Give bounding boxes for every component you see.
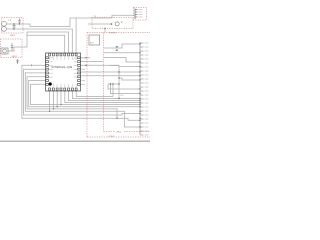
wire mic2 riser bbox=[22, 32, 27, 47]
big box left edge bbox=[86, 33, 88, 138]
wire right pin 1 stub bbox=[81, 57, 91, 59]
crystal component circle bbox=[115, 22, 119, 26]
upper right step wires bbox=[104, 44, 140, 66]
connector MIC1 circle A bbox=[2, 21, 7, 26]
top-right connector labels bbox=[139, 10, 143, 18]
wire bottom pin 4 drop bbox=[60, 91, 62, 105]
wire into crystal bbox=[88, 23, 112, 25]
red dashed box MIC2 bbox=[1, 39, 23, 58]
chip top pins bbox=[49, 53, 78, 56]
small component near left pins bbox=[16, 59, 18, 64]
wire mic2 stub bbox=[8, 47, 22, 51]
red dashed box crystal Y1 bbox=[92, 18, 133, 29]
wire left pin 8 bbox=[30, 84, 140, 104]
sub-block ANT rect bbox=[89, 35, 100, 45]
wire right pin 2 bbox=[81, 61, 104, 63]
wire left pin 5 bbox=[25, 73, 140, 127]
wire step to bus 80 bbox=[119, 78, 140, 80]
chip bottom pins bbox=[49, 88, 78, 91]
big box inner bottom edge bbox=[104, 131, 116, 133]
wire left pin 4 bbox=[24, 69, 140, 115]
junction dot crystal bbox=[111, 23, 113, 25]
wire net to bus 66 bbox=[119, 66, 140, 68]
wire step to bus 89 bbox=[108, 84, 140, 89]
wire nested to chip top pin 3 bbox=[27, 35, 65, 53]
capacitor C4 bbox=[18, 19, 21, 25]
junction dot right pin 3 bbox=[85, 65, 86, 66]
right pin outside labels bbox=[82, 58, 86, 85]
tick on chip left pin 3 wire bbox=[31, 64, 33, 67]
wire right pin 6 to bus bbox=[81, 75, 141, 77]
wires from chip bottom pins bbox=[50, 91, 140, 112]
wire bottom pin 8 bbox=[76, 91, 113, 97]
wire mic1 bottom lead to chip top pin bbox=[7, 29, 72, 53]
chip left pins bbox=[46, 57, 49, 86]
junction dots bottom pins on bus lines bbox=[60, 104, 61, 105]
capacitor C3 bbox=[13, 24, 16, 29]
wire bottom pin 1 drop bbox=[49, 91, 51, 112]
wire y65 bbox=[110, 65, 119, 67]
big box inner left edge bbox=[103, 33, 105, 132]
test point marks on y48 wire bbox=[115, 46, 118, 48]
wire nested to chip top pin 2 bbox=[27, 32, 69, 53]
wire stub below crystal box bbox=[104, 29, 106, 33]
top-right connector pins bbox=[135, 10, 138, 18]
wires from chip left pins routed down-left bbox=[22, 65, 140, 127]
big box top edge bbox=[87, 32, 150, 34]
wire bottom pin 7 bbox=[72, 91, 140, 99]
wire right pin 5 to bus bbox=[81, 71, 141, 73]
wire chip top pin 8 up to long top net bbox=[75, 18, 77, 53]
capacitor C5 bbox=[11, 43, 14, 51]
red dashed big right box bbox=[87, 33, 150, 138]
right connector bus spine bbox=[139, 42, 141, 135]
wire y57 step down bbox=[104, 58, 140, 63]
wire mic1 top lead long run to top-right connector bbox=[7, 15, 135, 26]
red dashed box top-right connector bbox=[133, 7, 146, 20]
svg-text:CON2: CON2 bbox=[108, 136, 115, 138]
wire left pin 3 bbox=[22, 65, 140, 120]
junction dots on bus spine bbox=[139, 43, 140, 127]
chip inner pin name texture bbox=[49, 57, 77, 86]
right connector pin stubs bbox=[140, 43, 144, 135]
red dashed box MIC1 bbox=[2, 18, 24, 34]
big box bottom edge bbox=[87, 136, 150, 138]
connector MIC1 circle B bbox=[2, 27, 7, 32]
wire right pin 3 long bbox=[81, 64, 120, 66]
svg-text:MIC2: MIC2 bbox=[12, 56, 18, 58]
wire tie y84 bbox=[108, 83, 119, 85]
svg-text:GT9012L-QN: GT9012L-QN bbox=[52, 65, 73, 69]
svg-text:ANT: ANT bbox=[90, 42, 95, 45]
wire bottom pin 2 drop bbox=[52, 91, 54, 109]
wire left pin 7 bbox=[29, 80, 140, 106]
wire bottom pin 3 drop bbox=[56, 91, 58, 107]
top-right connector spine bbox=[134, 9, 136, 20]
sheet bottom border bbox=[0, 141, 150, 142]
svg-text:PORT1: PORT1 bbox=[109, 33, 117, 35]
wires from chip right pins bbox=[81, 58, 141, 80]
pin 1 dot bbox=[49, 82, 52, 85]
wire bottom pin 5 bbox=[65, 91, 140, 103]
right mid vertical net bbox=[108, 65, 140, 98]
svg-text:LED1: LED1 bbox=[116, 131, 122, 133]
wire bottom pin 6 bbox=[69, 91, 140, 101]
chip right pins bbox=[78, 57, 81, 86]
junction dots on right mid net bbox=[118, 71, 119, 72]
connector MIC2 jack bbox=[1, 48, 8, 54]
chip U1 body bbox=[46, 53, 81, 91]
wire left pin 6 bbox=[27, 77, 117, 119]
wire step to bus 93.5 bbox=[111, 84, 141, 94]
wire y52 bbox=[104, 52, 140, 54]
svg-text:MIC1: MIC1 bbox=[10, 35, 16, 37]
right connector pin labels bbox=[145, 43, 149, 135]
junction dots on mic1 lead bbox=[13, 23, 14, 24]
wire y48 with test point bbox=[104, 44, 140, 48]
junction dot right pin 1 bbox=[85, 57, 86, 58]
wire step up from bottom pin 8 run bbox=[112, 84, 114, 97]
